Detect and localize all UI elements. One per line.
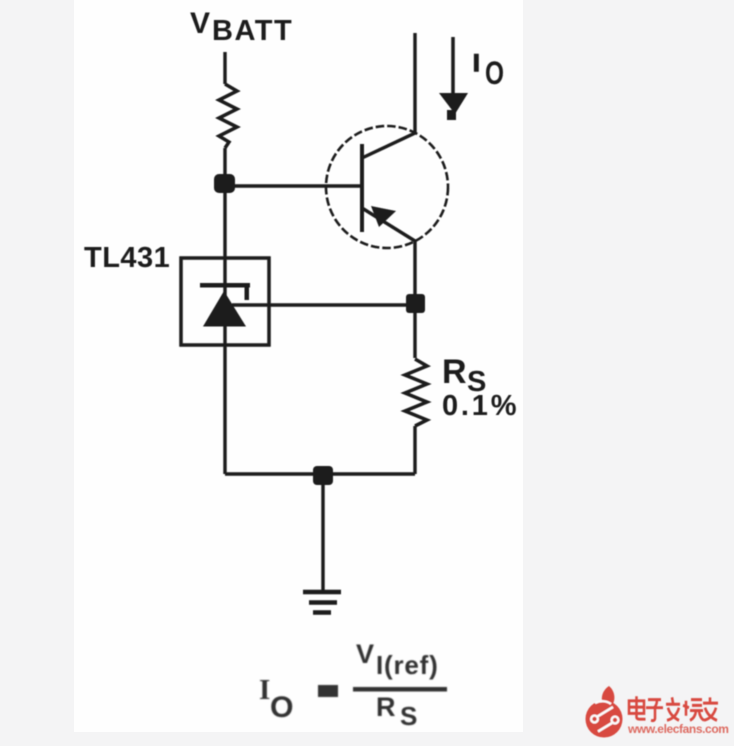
svg-text:R: R bbox=[376, 692, 396, 722]
svg-text:V: V bbox=[190, 7, 210, 40]
svg-text:0.1%: 0.1% bbox=[442, 390, 519, 422]
svg-text:O: O bbox=[270, 691, 294, 724]
svg-text:V: V bbox=[356, 639, 374, 669]
svg-text:R: R bbox=[442, 353, 467, 391]
svg-text:I(ref): I(ref) bbox=[376, 650, 439, 680]
svg-text:S: S bbox=[400, 701, 417, 731]
svg-text:TL431: TL431 bbox=[84, 242, 170, 274]
svg-text:www.elecfans.com: www.elecfans.com bbox=[627, 722, 729, 736]
svg-text:I: I bbox=[473, 50, 480, 77]
svg-text:I: I bbox=[259, 674, 270, 706]
svg-text:O: O bbox=[485, 55, 504, 91]
svg-text:BATT: BATT bbox=[212, 15, 293, 47]
